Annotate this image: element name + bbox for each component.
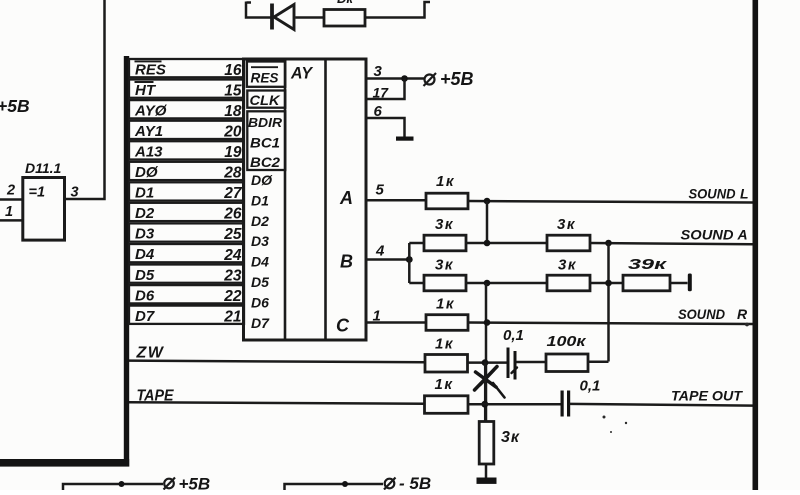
wire R9 up to divider node [589,360,609,363]
power symbol +5V (circle-slash) [424,69,474,89]
net D5 row to pin 23 [129,265,244,285]
ground symbol below R10 [477,478,497,484]
junction dot pin 4 split [406,256,413,263]
AY pin 1 (channel C) wire [366,321,426,324]
svg-text:RES: RES [135,61,166,78]
svg-text:28: 28 [223,165,242,182]
wire C1 to R9 [517,361,548,364]
svg-text:5: 5 [376,182,385,199]
svg-text:19: 19 [224,144,242,161]
vertical wire ZW node to tape node and R10 [484,362,487,421]
svg-text:D1: D1 [135,185,154,202]
vertical wire node B-bottom down through C to tape divider [485,283,488,422]
net ZW wire from bus [129,361,425,363]
svg-text:D2: D2 [251,213,269,229]
junction dot SOUND A / divider [605,240,612,247]
svg-text:RES: RES [251,70,280,86]
resistor R10 3k vertical to ground [479,422,520,465]
resistor R3 3k (B lower) [409,257,466,291]
svg-text:HT: HT [135,82,157,99]
svg-text:1к: 1к [435,376,454,393]
svg-text:A: A [339,188,353,208]
capacitor C2 0.1 [561,378,601,417]
svg-text:D7: D7 [251,315,270,331]
ground symbol (bar) right of R6 [688,274,692,292]
svg-text:1к: 1к [435,336,454,353]
svg-text:3: 3 [374,63,383,80]
svg-text:4: 4 [375,243,385,260]
power symbol -5V (bottom) [384,474,431,493]
AY pin cell RES [247,62,285,87]
vertical split wire at pin 4 [408,243,411,283]
svg-text:1: 1 [5,204,13,220]
junction dot on +5V tap [119,481,125,487]
svg-text:B: B [340,252,353,272]
svg-text:3к: 3к [558,257,577,274]
resistor R2 3k (B upper) [409,216,466,251]
junction dot TAPE node [481,401,488,408]
svg-text:D3: D3 [135,226,155,243]
svg-text:D3: D3 [251,233,269,249]
wire: R1 to SOUND L bus [468,201,753,203]
junction dot node C [484,319,491,326]
svg-text:D6: D6 [251,294,269,310]
svg-text:39к: 39к [628,256,668,273]
junction node A [484,198,491,205]
gate D11.1 pin 2 wire (from left edge) [0,198,23,201]
AY pin 3 wire to +5V node [366,77,424,80]
wire: vertical from top edge down to diode row [246,2,272,18]
svg-text:20: 20 [223,124,242,141]
svg-text:21: 21 [223,308,241,325]
junction dot pin3/+5V [401,75,408,82]
net D3 row to pin 25 [129,223,244,243]
svg-text:17: 17 [373,85,390,101]
net AY1 row to pin 20 [129,121,244,141]
AY pin cell BDIR/BC1/BC2 [247,111,285,170]
resistor R6 39k to ground [623,256,670,291]
wire R3 to R5 [466,282,547,285]
net A13 row to pin 19 [129,141,244,161]
svg-text:25: 25 [223,226,242,243]
resistor R5 3k (lower series) [547,257,590,291]
svg-text:0,1: 0,1 [503,327,524,344]
svg-text:BC1: BC1 [250,136,280,151]
svg-text:1к: 1к [436,173,455,190]
svg-text:AYØ: AYØ [134,102,168,119]
capacitor C1 0.1 [503,327,524,380]
resistor R7 1k (channel C) [426,296,468,331]
svg-text:AY1: AY1 [134,123,163,140]
left bus (thick vertical line) [124,56,129,467]
net TAPE wire from bus [129,402,426,404]
svg-text:R: R [737,306,748,322]
svg-text:D6: D6 [135,287,155,304]
svg-text:BDIR: BDIR [248,115,283,130]
svg-text:BC2: BC2 [250,155,281,170]
svg-text:TAPE OUT: TAPE OUT [671,388,743,404]
resistor R4 3k (SOUND A series) [547,216,590,251]
net RES row to pin 16 [129,59,244,79]
svg-text:DØ: DØ [135,164,159,181]
wire R10 to ground [485,464,488,478]
wire: R7 to SOUND R bus [468,323,753,325]
bottom tap wire to +5V [63,484,163,490]
svg-text:D2: D2 [135,205,155,222]
svg-text:SOUND: SOUND [678,306,725,322]
svg-text:23: 23 [223,267,242,284]
resistor R11 1k (TAPE) [425,376,469,413]
svg-text:1: 1 [373,308,381,325]
svg-text:SOUND: SOUND [689,186,736,202]
svg-text:DØ: DØ [251,172,273,188]
svg-text:15: 15 [224,82,242,99]
vertical wire divider node down to 100k row [607,243,610,362]
wire R8 to cap C1 [468,361,507,364]
svg-text:D5: D5 [135,267,155,284]
ground symbol at pin 6 [396,137,414,141]
resistor R8 1k (ZW) [425,336,468,373]
svg-text:3к: 3к [435,257,454,274]
net D6 row to pin 22 [129,285,244,305]
junction dot R5/R6 node [590,282,623,285]
junction dot on -5V tap [342,481,348,487]
scan specks [603,323,749,433]
net HT row to pin 15 [129,80,244,100]
svg-text:C: C [336,316,350,336]
svg-text:3к: 3к [501,429,520,446]
svg-text:L: L [740,186,749,202]
svg-text:D1: D1 [251,192,269,208]
svg-text:16: 16 [224,62,242,79]
svg-text:3: 3 [71,185,79,201]
svg-text:1к: 1к [436,296,455,313]
vertical wire node A to node B-top [486,201,489,243]
resistor R1 1k (channel A) [426,173,468,209]
wire R2 to R4 [466,242,547,245]
svg-text:CLK: CLK [250,92,281,108]
right bus (thick vertical line) [753,0,759,490]
svg-text:6: 6 [374,103,383,120]
svg-text:TAPE: TAPE [137,388,175,405]
svg-text:=1: =1 [29,185,46,201]
AY pin 5 (channel A) wire [366,199,426,202]
gate D11.1 pin 3 output wire, up to top edge [65,0,105,199]
svg-text:24: 24 [223,247,242,264]
net D1 row to pin 27 [129,182,244,202]
resistor R9 100k [546,333,588,372]
svg-text:D4: D4 [135,246,155,263]
svg-text:SOUND: SOUND [681,227,734,243]
svg-text:- 5В: - 5В [399,474,431,490]
svg-text:0,1: 0,1 [580,378,601,395]
junction dot ZW node [482,359,489,366]
svg-text:Dк: Dк [337,0,354,6]
svg-text:D7: D7 [135,308,155,325]
svg-text:+5В: +5В [179,475,211,491]
net D4 row to pin 24 [129,244,244,264]
AY pin 6 wire to ground [366,118,405,137]
svg-text:100к: 100к [547,333,588,350]
gate D11.1 pin 1 wire (from left edge) [0,219,23,222]
svg-text:D4: D4 [251,254,269,270]
AY internal data pin labels D0-D7 [251,172,273,331]
net AYØ row to pin 18 [129,100,244,120]
IC U1: AY-3-8910 sound chip body [244,59,367,340]
wire tape node to cap C2 [468,403,561,406]
svg-text:27: 27 [223,185,243,202]
wire: diode to resistor DR [296,16,325,19]
net D2 row to pin 26 [129,203,244,223]
AY pin cell CLK [247,91,285,109]
svg-text:D11.1: D11.1 [25,160,62,176]
left bus bottom thick horizontal [0,459,129,467]
svg-text:3к: 3к [557,216,576,233]
svg-text:22: 22 [223,288,242,305]
net DØ row to pin 28 [129,162,244,182]
svg-text:A: A [737,227,748,243]
junction dot B-bottom [484,280,491,287]
pen scribble over ZW node [475,367,518,398]
svg-text:2: 2 [6,183,15,199]
junction dot B-top [484,240,491,247]
wire: resistor DR to top edge (right bend) [365,2,430,18]
wire R6 to ground bar [670,282,688,285]
svg-text:AY: AY [290,64,313,83]
AY pin 4 (channel B) wire [366,258,410,261]
svg-text:3к: 3к [435,216,454,233]
svg-text:+5В: +5В [0,96,30,116]
svg-text:+5В: +5В [440,69,474,89]
diode VD (top clamp diode, cathode bar left) [272,4,294,30]
wire C2 to TAPE OUT bus [569,404,753,406]
logic gate D11.1 (XOR =1) [23,160,65,240]
svg-text:D5: D5 [251,274,269,290]
wire: R4 to SOUND A bus [590,243,753,244]
resistor DR (top, label clipped by image edge) [324,10,365,27]
AY pin 17 wire, tied to pin 3 [366,79,405,100]
bottom tap wire to -5V [285,484,384,490]
net D7 row to pin 21 [129,306,244,326]
svg-text:18: 18 [224,103,242,120]
power symbol +5V (bottom) [164,475,211,494]
svg-text:ZW: ZW [136,345,165,362]
svg-text:26: 26 [223,206,242,223]
svg-text:A13: A13 [134,144,163,161]
